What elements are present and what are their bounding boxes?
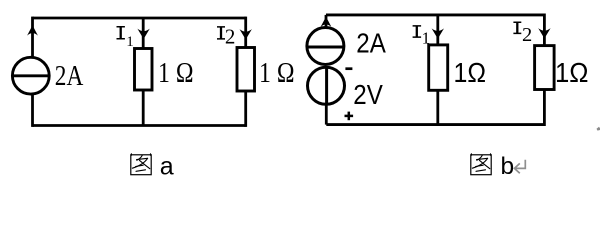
label: 2V value (circuit b) xyxy=(353,79,383,110)
label: 2A value (circuit a) xyxy=(55,61,84,92)
wire: bottom bus (circuit b) xyxy=(326,123,544,126)
svg-text:2A: 2A xyxy=(356,27,386,58)
label: I1 (circuit b) xyxy=(413,26,431,48)
label: 1 ohm value (R of I2 branch, circuit b) xyxy=(555,57,589,88)
svg-text:1Ω: 1Ω xyxy=(454,57,487,88)
label: 1 ohm value (R of I1 branch, circuit b) xyxy=(454,57,487,88)
label: plus polarity mark (circuit b) xyxy=(345,112,354,121)
resistor 1 ohm (I1 branch, circuit a) xyxy=(135,49,153,91)
caption: figure b with return mark xyxy=(471,153,526,180)
resistor 1 ohm (I1 branch, circuit b) xyxy=(429,45,448,90)
svg-text:2: 2 xyxy=(225,25,236,49)
label: I2 (circuit b) xyxy=(513,22,532,46)
svg-text:1: 1 xyxy=(126,34,134,50)
wire: R1 branch bottom segment (circuit b) xyxy=(436,90,439,124)
arrow: current I1 down (circuit b) xyxy=(432,28,444,38)
resistor 1 ohm (I2 branch, circuit b) xyxy=(535,46,555,90)
wire: R1 branch top segment (circuit a) xyxy=(142,18,145,49)
arrow: current I1 down (circuit a) xyxy=(137,29,149,39)
voltage source 2V (circuit b) xyxy=(308,66,345,105)
svg-text:2V: 2V xyxy=(353,79,383,110)
wire: R2 branch bottom segment (circuit b) xyxy=(543,90,546,127)
svg-text:1 Ω: 1 Ω xyxy=(158,57,194,89)
svg-text:2: 2 xyxy=(522,24,532,46)
wire: stub from arrow to current source (circuit b) xyxy=(325,15,328,28)
hanzi "tu" (figure) drawn as strokes xyxy=(131,154,151,175)
label: 1 ohm value (R of I1 branch, circuit a) xyxy=(158,57,194,89)
svg-text:2A: 2A xyxy=(55,61,84,92)
wire: R2 branch bottom segment (circuit a) xyxy=(244,91,247,127)
resistor 1 ohm (I2 branch, circuit a) xyxy=(237,48,255,92)
label: minus polarity mark (circuit b) xyxy=(345,67,352,70)
arrow: current I2 down (circuit a) xyxy=(240,29,252,39)
label: 1 ohm value (R of I2 branch, circuit a) xyxy=(259,57,295,89)
wire: top bus (circuit b) xyxy=(326,13,544,16)
return (enter) mark xyxy=(514,160,525,173)
arrow: current direction up into top bus (circuit b) xyxy=(321,17,332,27)
wire: left branch lower segment (circuit a) xyxy=(31,94,34,127)
caption: figure a xyxy=(131,153,174,181)
wire: bottom bus (circuit a) xyxy=(33,124,246,127)
wire: R2 branch top segment (circuit b) xyxy=(543,14,546,46)
svg-text:b: b xyxy=(501,153,515,177)
svg-text:1Ω: 1Ω xyxy=(555,57,589,88)
label: I2 (circuit a) xyxy=(217,25,235,49)
wire: left branch upper segment (circuit a) xyxy=(31,17,34,58)
stray mark: small gray blob at right edge xyxy=(597,127,600,131)
wire: R1 branch bottom segment (circuit a) xyxy=(142,90,145,126)
wire: source branch lower segment (circuit b) xyxy=(325,103,328,125)
arrow: current I2 down (circuit b) xyxy=(538,28,550,38)
svg-text:1 Ω: 1 Ω xyxy=(259,57,295,89)
label: 2A value (circuit b) xyxy=(356,27,386,58)
hanzi "tu" (figure) drawn as strokes xyxy=(471,154,491,175)
current source 2A (circuit a) xyxy=(12,57,50,94)
wire: top bus (circuit a) xyxy=(33,17,246,20)
arrow: current direction up on source branch (circuit a) xyxy=(27,25,38,35)
svg-text:a: a xyxy=(160,153,174,178)
wire: R1 branch top segment (circuit b) xyxy=(436,15,439,45)
current source 2A (circuit b) xyxy=(306,28,344,65)
label: I1 (circuit a) xyxy=(117,27,134,50)
wire: R2 branch top segment (circuit a) xyxy=(244,17,247,48)
